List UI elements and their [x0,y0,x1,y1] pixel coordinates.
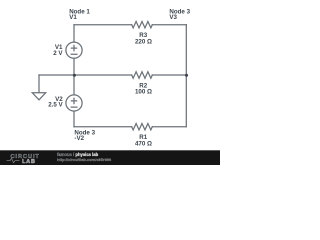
resistor R3 [132,22,153,28]
svg-text:470 Ω: 470 Ω [135,140,152,147]
wire V2 to bottom [73,111,75,127]
voltage source V2 [66,95,82,111]
svg-text:2.5 V: 2.5 V [48,101,63,108]
wire middle horizontal left [39,74,132,76]
wire top: node1 to node3 with R3 [74,24,132,26]
voltage source V1 [66,42,82,58]
svg-text:V1: V1 [69,14,77,21]
svg-text:http://circuitlab.com/c85r886: http://circuitlab.com/c85r886 [57,157,112,162]
svg-text:V3: V3 [169,14,177,21]
svg-text:100 Ω: 100 Ω [135,89,152,96]
svg-text:220 Ω: 220 Ω [135,38,152,45]
svg-text:-V2: -V2 [74,135,84,142]
wire top right [152,24,186,26]
footer bar [0,150,220,165]
junction node A [73,74,76,77]
wire middle right [152,74,186,76]
svg-text:2 V: 2 V [53,50,63,57]
wire V1 to junction [73,58,75,75]
junction node B [185,74,188,77]
wire bottom horizontal [74,126,132,128]
svg-text:LAB: LAB [22,159,36,165]
wire right vertical [185,25,187,127]
wire left vertical top [73,25,75,42]
wire bottom right [152,126,186,128]
logo waveform [7,158,20,163]
resistor R2 [132,72,153,78]
resistor R1 [132,123,153,129]
ground [32,75,45,100]
wire junction to V2 [73,75,75,95]
